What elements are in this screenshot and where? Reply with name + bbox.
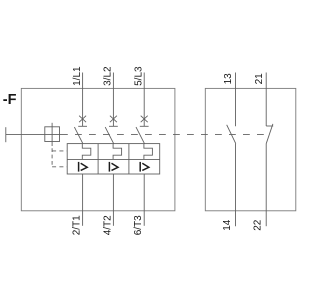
fixed contact bar pole 3	[140, 125, 149, 127]
auxiliary contact enclosure box	[205, 88, 295, 210]
svg-text:1/L1: 1/L1	[72, 66, 83, 86]
fixed contact bar pole 1	[78, 125, 87, 127]
operating mechanism square	[45, 127, 60, 142]
wire 14 bottom lead	[235, 144, 237, 227]
trip unit column divider 2	[128, 144, 130, 174]
trip-free cross pole 3	[141, 116, 148, 123]
thermal overload element pole 1	[82, 144, 91, 160]
manual operator shaft (solid)	[6, 133, 68, 135]
contact blade pole 1	[74, 127, 83, 144]
svg-text:5/L3: 5/L3	[134, 66, 145, 86]
contact blade pole 2	[105, 127, 114, 144]
svg-text:4/T2: 4/T2	[102, 215, 113, 235]
wire 3/L2 top lead	[112, 73, 114, 127]
wire 21 top lead	[265, 73, 267, 127]
wire 1/L1 top lead	[82, 73, 84, 127]
thermal overload element pole 3	[144, 144, 153, 160]
NC contact blade	[266, 124, 273, 144]
trip unit block outline	[67, 144, 160, 174]
trip-free cross pole 2	[110, 116, 117, 123]
wire 2/T1 bottom lead	[82, 174, 84, 226]
main breaker enclosure box	[21, 88, 175, 210]
magnetic trip I> pole 1	[79, 162, 88, 172]
wire 4/T2 bottom lead	[112, 174, 114, 226]
svg-text:3/L2: 3/L2	[103, 66, 114, 86]
NO contact blade	[227, 125, 236, 144]
svg-text:13: 13	[223, 73, 234, 85]
trip unit column divider 1	[97, 144, 99, 174]
manual operator end tick	[5, 127, 7, 142]
fixed contact bar pole 2	[109, 125, 118, 127]
contact blade pole 3	[136, 127, 145, 144]
svg-text:6/T3: 6/T3	[133, 215, 144, 235]
svg-text:-F: -F	[3, 92, 17, 108]
wire 5/L3 top lead	[143, 73, 145, 127]
wire 22 bottom lead	[265, 144, 267, 227]
svg-text:2/T1: 2/T1	[72, 215, 83, 235]
trip unit row divider	[67, 158, 160, 160]
mechanical linkage (dashed)	[68, 133, 267, 135]
svg-text:14: 14	[222, 219, 233, 231]
svg-text:21: 21	[254, 73, 265, 85]
thermal overload element pole 2	[113, 144, 122, 160]
wire 6/T3 bottom lead	[143, 174, 145, 226]
magnetic trip I> pole 2	[109, 162, 118, 172]
trip linkage vertical (dashed)	[51, 148, 53, 167]
trip linkage to magnetic row (dashed)	[52, 166, 67, 168]
trip-free cross pole 1	[79, 116, 86, 123]
trip linkage to thermal row (dashed)	[52, 150, 67, 152]
mechanism vertical shaft	[51, 123, 53, 146]
magnetic trip I> pole 3	[140, 162, 149, 172]
wire 13 top lead	[235, 73, 237, 127]
svg-text:22: 22	[252, 219, 263, 231]
NC contact seat bar	[266, 125, 273, 127]
